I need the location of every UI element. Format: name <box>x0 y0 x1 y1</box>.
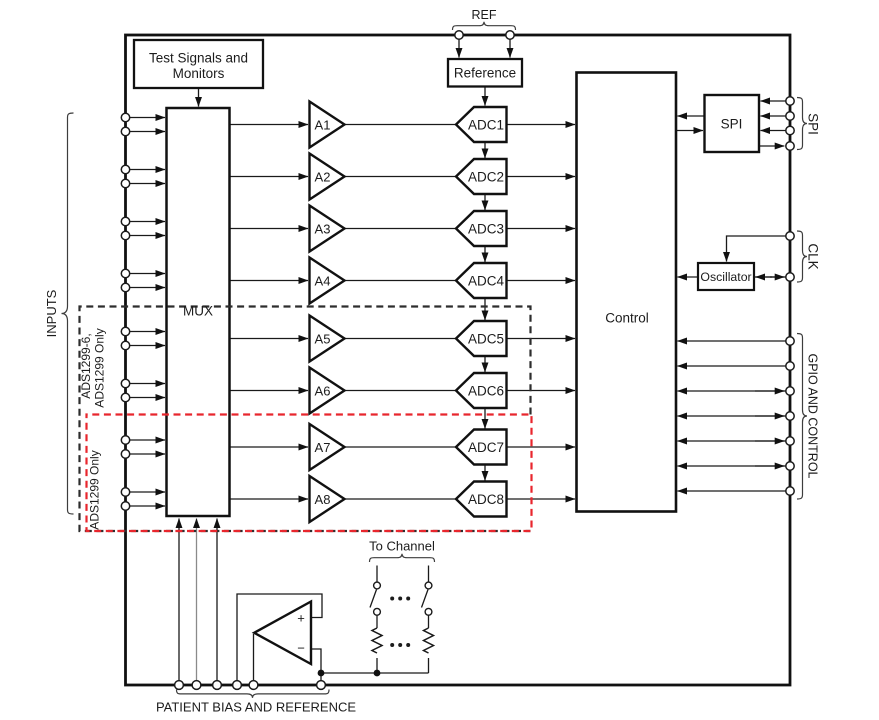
wire MUX to A6 <box>230 390 309 392</box>
switch S1 lower contact <box>374 608 381 615</box>
wire ADC5 to Control <box>507 338 576 340</box>
op-amp U1 patient bias amplifier <box>254 602 311 665</box>
arrow into CLK terminal <box>770 276 784 278</box>
wire ADC8 to Control <box>507 498 576 500</box>
dashed region ADS1299-6/ADS1299 only (channels 5-8) <box>80 307 531 532</box>
switch S2 lower contact <box>425 608 432 615</box>
svg-text:Oscillator: Oscillator <box>700 270 751 284</box>
wire input IN15 to MUX <box>130 491 166 493</box>
svg-text:ADC1: ADC1 <box>468 117 504 132</box>
input terminals on left edge <box>121 113 129 121</box>
svg-text:A8: A8 <box>315 492 331 507</box>
switch S1 blade <box>370 590 377 608</box>
wire input IN10 to MUX <box>130 345 166 347</box>
op-amp A3 <box>310 206 345 252</box>
ADC7 <box>456 430 507 465</box>
wire op-amp noninverting input feedback loop <box>237 594 322 681</box>
wire ADC1 to Control <box>507 124 576 126</box>
chip outline (device boundary) <box>126 35 791 685</box>
arrow out to GPIO6 terminal <box>755 465 784 467</box>
wire A7 to ADC7 <box>345 446 458 448</box>
ADC5 <box>456 321 507 356</box>
wire input IN16 to MUX <box>130 505 166 507</box>
wire ADC7 to ADC8 chain <box>484 465 486 481</box>
wire SPI output terminal <box>759 145 784 147</box>
arrow out to GPIO5 terminal <box>755 440 784 442</box>
wire switch S2 to resistor R2 <box>428 615 430 628</box>
svg-text:PATIENT BIAS AND REFERENCE: PATIENT BIAS AND REFERENCE <box>156 700 356 715</box>
svg-text:ADC7: ADC7 <box>468 440 504 455</box>
ADC6 <box>456 373 507 408</box>
wire SPI to Control <box>678 115 705 117</box>
wire GPIO4 terminal to Control <box>678 415 786 417</box>
ADC8 <box>456 482 507 517</box>
wire ADC7 to Control <box>507 446 576 448</box>
wire ADC3 to ADC4 chain <box>484 246 486 262</box>
svg-text:GPIO AND CONTROL: GPIO AND CONTROL <box>806 353 820 478</box>
svg-text:Test Signals and: Test Signals and <box>149 51 248 66</box>
svg-text:ADC8: ADC8 <box>468 492 504 507</box>
wire Oscillator to Control <box>678 276 699 278</box>
wire REF terminal 2 to Reference <box>509 40 511 58</box>
wire input IN6 to MUX <box>130 235 166 237</box>
switch S2 upper contact <box>425 582 432 589</box>
wire MUX to A1 <box>230 124 309 126</box>
REF terminals on top edge <box>455 31 463 39</box>
wire A4 to ADC4 <box>345 280 458 282</box>
wire left resistor column bottom <box>376 658 378 673</box>
wire GPIO7 terminal to Control <box>678 490 786 492</box>
brace To Channel <box>370 554 435 562</box>
svg-text:ADS1299 Only: ADS1299 Only <box>88 450 102 529</box>
wire Reference to ADC1 <box>484 87 486 106</box>
svg-text:ADS1299-6,: ADS1299-6, <box>79 333 93 398</box>
wire input IN11 to MUX <box>130 383 166 385</box>
wire A2 to ADC2 <box>345 176 458 178</box>
wire input IN1 to MUX <box>130 117 166 119</box>
wire ADC3 to Control <box>507 228 576 230</box>
wire bias feed 2 (gray) into MUX bottom <box>196 519 198 682</box>
wire GPIO1 terminal to Control <box>678 340 786 342</box>
wire input IN9 to MUX <box>130 331 166 333</box>
wire A3 to ADC3 <box>345 228 458 230</box>
resistor R2 <box>424 628 434 653</box>
svg-text:+: + <box>297 611 305 626</box>
wire input IN8 to MUX <box>130 287 166 289</box>
wire Oscillator to CLK output terminal <box>754 276 786 278</box>
svg-text:ADC2: ADC2 <box>468 169 504 184</box>
block: MUX <box>167 108 230 516</box>
op-amp A6 <box>310 368 345 414</box>
dashed region ADS1299 only (channels 7-8) <box>87 415 532 532</box>
wire GPIO5 terminal to Control <box>678 440 786 442</box>
wire SPI input terminal y=101 <box>761 100 786 102</box>
svg-text:Control: Control <box>605 311 649 326</box>
wire input IN13 to MUX <box>130 439 166 441</box>
block: Reference <box>448 59 522 87</box>
wire ADC2 to Control <box>507 176 576 178</box>
svg-text:A6: A6 <box>315 383 331 398</box>
wire SPI input terminal y=116 <box>761 115 786 117</box>
wire input IN3 to MUX <box>130 169 166 171</box>
wire switch S1 to resistor R1 <box>376 615 378 628</box>
svg-text:A1: A1 <box>315 117 331 132</box>
svg-text:A5: A5 <box>315 331 331 346</box>
op-amp A8 <box>310 476 345 522</box>
svg-text:Reference: Reference <box>454 66 516 81</box>
wire right resistor column bottom <box>428 658 430 673</box>
wire GPIO2 terminal to Control <box>678 365 786 367</box>
svg-text:SPI: SPI <box>806 113 821 135</box>
wire ADC4 to Control <box>507 280 576 282</box>
ADC3 <box>456 211 507 246</box>
svg-text:Monitors: Monitors <box>173 66 225 81</box>
block: SPI <box>705 95 760 152</box>
svg-text:MUX: MUX <box>183 304 213 319</box>
arrow out to GPIO4 terminal <box>755 415 784 417</box>
bias terminals on bottom edge <box>175 681 184 690</box>
wire MUX to A7 <box>230 446 309 448</box>
wire CLK input terminal to Oscillator <box>727 236 786 262</box>
svg-text:SPI: SPI <box>721 117 743 132</box>
wire MUX to A3 <box>230 228 309 230</box>
resistor R1 <box>372 628 382 653</box>
wire ADC5 to ADC6 chain <box>484 356 486 372</box>
wire Test Signals to MUX <box>198 89 200 107</box>
wire MUX to A4 <box>230 280 309 282</box>
wire ADC1 to ADC2 chain <box>484 142 486 158</box>
svg-text:ADC5: ADC5 <box>468 331 504 346</box>
svg-text:A4: A4 <box>315 273 331 288</box>
ellipsis dots between switches <box>390 597 394 601</box>
wire A5 to ADC5 <box>345 338 458 340</box>
wire ADC6 to ADC7 chain <box>484 408 486 429</box>
arrow out to GPIO3 terminal <box>755 390 784 392</box>
wire GPIO3 terminal to Control <box>678 390 786 392</box>
ADC2 <box>456 159 507 194</box>
wire GPIO6 terminal to Control <box>678 465 786 467</box>
wire input IN5 to MUX <box>130 221 166 223</box>
svg-text:CLK: CLK <box>806 243 821 269</box>
wire input IN2 to MUX <box>130 131 166 133</box>
op-amp A2 <box>310 154 345 200</box>
wire REF terminal 1 to Reference <box>458 40 460 58</box>
node junction dot at inverting input <box>318 670 325 677</box>
wire input IN14 to MUX <box>130 453 166 455</box>
svg-text:−: − <box>297 641 305 656</box>
wire Control to SPI <box>676 130 703 132</box>
wire A8 to ADC8 <box>345 498 458 500</box>
brace INPUTS <box>62 113 74 514</box>
op-amp A4 <box>310 258 345 304</box>
svg-text:A3: A3 <box>315 221 331 236</box>
brace CLK <box>797 231 807 282</box>
wire SPI input terminal y=130.5 <box>761 130 786 132</box>
wire A1 to ADC1 <box>345 124 458 126</box>
brace PATIENT BIAS AND REFERENCE <box>177 690 330 698</box>
SPI/CLK/GPIO terminals on right edge <box>786 97 794 105</box>
brace REF <box>453 22 516 30</box>
switch S1 upper contact <box>374 582 381 589</box>
op-amp A7 <box>310 424 345 470</box>
svg-text:ADC6: ADC6 <box>468 383 504 398</box>
brace SPI <box>797 98 807 150</box>
wire MUX to A2 <box>230 176 309 178</box>
svg-text:To Channel: To Channel <box>369 539 435 554</box>
wire bias feed 3 into MUX bottom <box>216 519 218 682</box>
wire bias bottom bus to resistor columns <box>321 672 429 674</box>
svg-text:ADC4: ADC4 <box>468 273 505 288</box>
wire MUX to A8 <box>230 498 309 500</box>
switch S2 blade <box>422 590 429 608</box>
wire bias feed 1 into MUX bottom <box>178 519 180 682</box>
ADC1 <box>456 107 507 142</box>
wire ADC4 to ADC5 chain <box>484 298 486 320</box>
svg-text:ADS1299 Only: ADS1299 Only <box>93 328 107 407</box>
ADC4 <box>456 263 507 298</box>
wire stub from To Channel brace to switch S1 <box>376 566 378 582</box>
wire A6 to ADC6 <box>345 390 458 392</box>
svg-text:REF: REF <box>472 8 497 22</box>
wire input IN12 to MUX <box>130 397 166 399</box>
wire stub from To Channel brace to switch S2 <box>428 566 430 582</box>
op-amp A5 <box>310 316 345 362</box>
wire input IN4 to MUX <box>130 183 166 185</box>
svg-text:A2: A2 <box>315 169 331 184</box>
wire input IN7 to MUX <box>130 273 166 275</box>
block: Control <box>577 73 677 512</box>
wire op-amp inverting input down to node <box>311 649 321 681</box>
svg-text:ADC3: ADC3 <box>468 221 504 236</box>
op-amp A1 <box>310 102 345 148</box>
block: Test Signals and Monitors <box>134 40 263 88</box>
node junction dot at left resistor <box>374 670 381 677</box>
wire op-amp output (apex) to terminal <box>253 634 255 681</box>
wire MUX to A5 <box>230 338 309 340</box>
ellipsis dots between resistors <box>390 643 394 647</box>
svg-text:A7: A7 <box>315 440 331 455</box>
block: Oscillator <box>698 263 754 290</box>
wire ADC2 to ADC3 chain <box>484 194 486 210</box>
wire ADC6 to Control <box>507 390 576 392</box>
brace GPIO AND CONTROL <box>797 334 807 500</box>
svg-text:INPUTS: INPUTS <box>44 289 59 337</box>
arrow into Oscillator right edge <box>756 276 773 278</box>
